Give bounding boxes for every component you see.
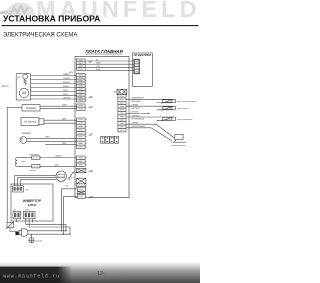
svg-text:датчик: датчик	[30, 169, 36, 172]
svg-text:термодатчик: термодатчик	[171, 144, 187, 147]
plug cable	[15, 231, 19, 235]
inverter box	[11, 184, 53, 221]
display connector pins	[135, 60, 139, 73]
inverter bottom connector A	[13, 211, 21, 219]
main board ПЛАТА ГЛАВНАЯ outline	[75, 57, 129, 198]
display connector CN-D outline	[134, 59, 140, 74]
title underline	[86, 53, 122, 55]
lamp wire b	[27, 140, 77, 142]
svg-text:КОРИЧНЕВЫЙ: КОРИЧНЕВЫЙ	[132, 118, 145, 121]
junctions	[61, 230, 62, 231]
relay K3	[126, 117, 176, 121]
svg-text:реле конвекции: реле конвекции	[176, 119, 193, 121]
connector CN3 (buzzer)	[77, 104, 86, 110]
door sensor wire b	[44, 122, 77, 124]
fan unit wire 7	[31, 98, 77, 100]
fan unit wire 5	[31, 91, 77, 93]
svg-text:+ДП: +ДП	[88, 197, 93, 199]
left return wire vertical	[6, 107, 8, 222]
svg-text:HV: HV	[18, 77, 22, 79]
fuse	[7, 222, 13, 227]
svg-text:реле вентилятора: реле вентилятора	[176, 101, 197, 103]
svg-text:-12-: -12-	[95, 271, 104, 277]
buzzer feed wire	[7, 106, 22, 108]
door sensor terminal	[39, 119, 44, 125]
CN2 pin stubs	[85, 75, 87, 101]
motor M	[19, 88, 28, 97]
plug wires	[28, 230, 66, 232]
connector pair X1	[77, 169, 86, 173]
connector row D1	[77, 187, 85, 191]
wires inverter to magnetron	[15, 176, 57, 186]
footer dark left block	[0, 267, 72, 283]
lamp symbol	[23, 74, 28, 79]
svg-text:Хол-к: Хол-к	[1, 84, 9, 88]
svg-text:+ДК: +ДК	[88, 97, 93, 99]
svg-text:+ДЗ: +ДЗ	[88, 107, 93, 109]
page background	[0, 0, 200, 283]
MAUNFELD watermark emblem	[0, 2, 35, 16]
fan unit wire 2	[31, 79, 77, 81]
CN5 pin stubs	[85, 158, 87, 165]
lamp wire c	[45, 144, 77, 146]
connector CN6 (right column)	[118, 95, 126, 132]
connector row D2	[77, 194, 85, 198]
svg-text:БЕЛЫЙ: БЕЛЫЙ	[63, 81, 70, 84]
svg-text:подсветка: подсветка	[30, 153, 39, 156]
wire to display pin 3	[85, 66, 134, 68]
wires to oven sensor	[126, 124, 174, 141]
svg-text:СЕРЫЙ: СЕРЫЙ	[132, 122, 139, 125]
connector pair X3	[77, 191, 85, 194]
fan unit wire 1	[31, 75, 77, 77]
heading rule	[2, 25, 199, 27]
svg-text:БЕЛЫЙ: БЕЛЫЙ	[132, 111, 139, 114]
svg-text:корпус: корпус	[36, 240, 44, 242]
signal wire	[126, 112, 150, 114]
relay K2	[126, 106, 176, 110]
svg-text:перв.: перв.	[22, 161, 27, 163]
mains wire L to board	[62, 189, 78, 231]
wire to display pin 1	[85, 60, 134, 62]
display board ПЛАТА ДИСПЛЕЯ outline	[133, 53, 153, 87]
svg-text:СЕРЫЙ: СЕРЫЙ	[63, 96, 70, 99]
connector CN1 (display harness)	[77, 59, 86, 70]
primary resistor R1	[32, 156, 41, 159]
svg-text:реле гриля: реле гриля	[176, 108, 189, 110]
inverter top connector	[13, 186, 24, 192]
mains wire N to board	[64, 196, 78, 234]
svg-text:СИНИЙ: СИНИЙ	[132, 104, 139, 107]
svg-text:ЭЛЕКТРИЧЕСКАЯ СХЕМА: ЭЛЕКТРИЧЕСКАЯ СХЕМА	[3, 32, 77, 38]
mains branch wires	[26, 224, 70, 234]
svg-text:ЗУМ1: ЗУМ1	[62, 104, 67, 106]
svg-text:магнетр: магнетр	[58, 176, 65, 178]
door sensor wire a	[44, 119, 77, 121]
secondary resistor R2	[32, 165, 41, 168]
buzzer wire b	[40, 108, 77, 110]
svg-text:УСТАНОВКА ПРИБОРА: УСТАНОВКА ПРИБОРА	[3, 13, 100, 23]
fan-motor unit box	[16, 74, 30, 100]
magnetron	[56, 171, 66, 181]
arrowhead	[148, 113, 150, 114]
svg-text:+ДВ: +ДВ	[88, 171, 93, 173]
svg-text:ПОДСВ: ПОДСВ	[55, 156, 62, 158]
connector pair X4 (right)	[117, 89, 127, 94]
svg-text:+ДЛ: +ДЛ	[88, 135, 93, 137]
coil bottom wire	[17, 165, 32, 167]
buzzer box Зуммер	[22, 105, 40, 111]
inverter bottom connector B	[24, 211, 36, 219]
fan unit wire 6	[31, 95, 77, 97]
svg-text:ФИОЛЕТОВЫЙ: ФИОЛЕТОВЫЙ	[132, 125, 146, 128]
wire to display pin 2	[85, 63, 134, 65]
svg-text:об. датчик: об. датчик	[24, 120, 37, 123]
oven sensor	[172, 134, 186, 142]
fuse to plug wire	[10, 228, 15, 232]
relay K1	[126, 99, 176, 103]
svg-text:КРАСНЫЙ: КРАСНЫЙ	[132, 100, 141, 103]
svg-text:M: M	[22, 91, 26, 96]
svg-text:ЖЁЛТ: ЖЁЛТ	[62, 93, 69, 96]
svg-text:БЛОК: БЛОК	[28, 203, 38, 207]
svg-text:TXD: TXD	[96, 66, 101, 68]
svg-text:www.maunfeld.ru: www.maunfeld.ru	[3, 274, 60, 280]
svg-text:диммер: диммер	[22, 132, 32, 135]
svg-text:GND: GND	[96, 63, 101, 65]
svg-text:ДАТЧ: ДАТЧ	[61, 117, 67, 120]
svg-text:ЛМП: ЛМП	[61, 143, 67, 145]
connector CN5	[77, 156, 86, 167]
svg-text:ПЛАТА ГЛАВНАЯ: ПЛАТА ГЛАВНАЯ	[85, 49, 123, 54]
ground symbol	[31, 234, 33, 238]
fan unit wire 3	[31, 83, 77, 85]
svg-text:ЖЁЛТЫЙ: ЖЁЛТЫЙ	[131, 107, 141, 110]
transformer coil	[15, 158, 17, 167]
fan unit wire 4	[31, 87, 77, 89]
heater zigzag	[24, 79, 27, 85]
transformer wire a	[40, 157, 77, 159]
svg-text:RXD: RXD	[96, 69, 101, 71]
coil top wire	[17, 157, 32, 159]
svg-text:ЧЁРН: ЧЁРН	[63, 89, 69, 92]
power plug	[22, 229, 28, 236]
hatched row	[77, 184, 86, 187]
connector pair X2	[77, 178, 86, 184]
lamp circle	[20, 137, 27, 144]
thermal cutout switch	[68, 178, 70, 180]
svg-text:ОРАНЖЕВЫЙ: ОРАНЖЕВЫЙ	[132, 97, 145, 100]
inverter pins drop	[17, 219, 33, 227]
svg-text:ОРАНЖ: ОРАНЖ	[63, 73, 70, 76]
svg-text:СИНИЙ: СИНИЙ	[63, 77, 70, 80]
connector CN2 (fan/motor)	[77, 73, 86, 102]
svg-text:КРАСН: КРАСН	[63, 85, 70, 88]
svg-text:Зуммер: Зуммер	[26, 106, 36, 110]
board bottom connector row	[101, 136, 119, 143]
buzzer wire a	[40, 105, 77, 107]
svg-text:ПЛ ДИСПЛЕЯ: ПЛ ДИСПЛЕЯ	[134, 53, 151, 57]
lamp wire a	[27, 137, 77, 139]
transformer wire b	[40, 165, 77, 167]
connector CN4 (sensors/lamp)	[77, 118, 86, 149]
CN4 pin stubs	[85, 120, 87, 147]
svg-text:ЧЁРНЫЙ: ЧЁРНЫЙ	[132, 114, 140, 117]
door sensor box	[21, 118, 39, 126]
svg-text:+ДГ: +ДГ	[88, 61, 93, 63]
wire to display pin 4	[85, 70, 134, 72]
